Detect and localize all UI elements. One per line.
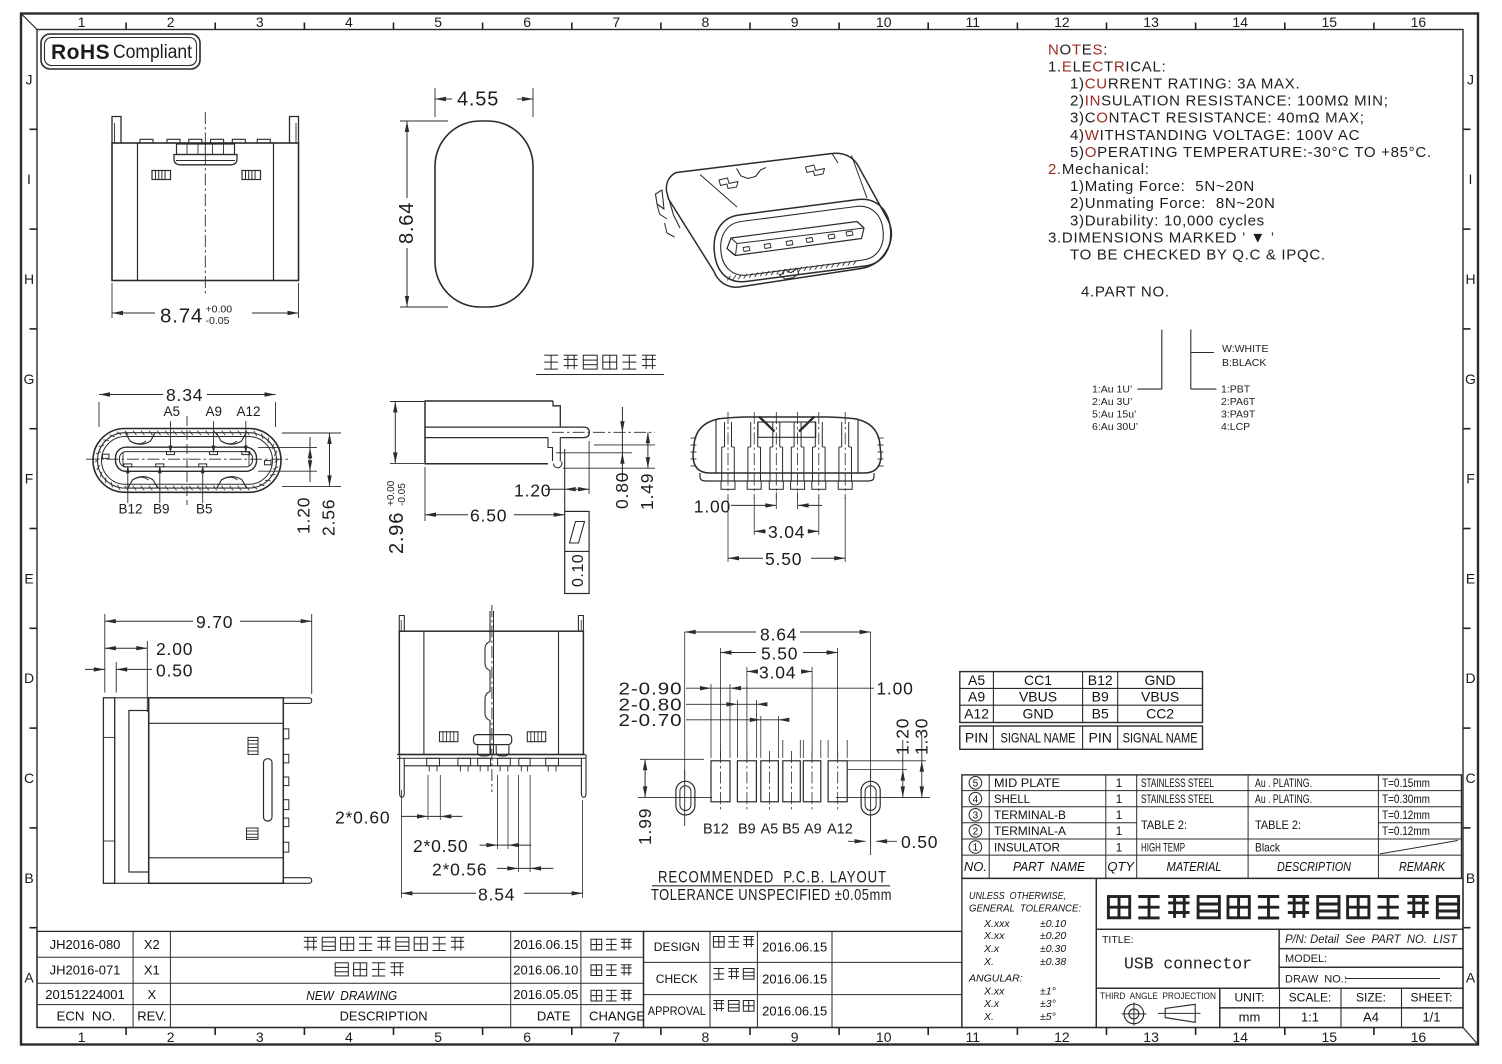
view: isometric 3D connector (656, 153, 892, 287)
left view bottom pin (283, 878, 311, 884)
dimension 0.50 (115, 662, 117, 693)
svg-text:11: 11 (966, 14, 981, 30)
svg-text:2.00: 2.00 (156, 639, 193, 659)
svg-text:A12: A12 (237, 404, 261, 419)
dimension 2-0.90 and 1.00 (686, 687, 874, 689)
top view terminals (724, 422, 726, 447)
third angle projection cell (1096, 988, 1220, 1027)
svg-text:1:PBT: 1:PBT (1221, 384, 1251, 396)
dimension 1.49 (563, 467, 655, 469)
pin leader A5 (170, 421, 172, 451)
view: oval cap profile (396, 88, 533, 307)
svg-text:-0.05: -0.05 (397, 483, 408, 506)
general tolerance box (962, 878, 1096, 1027)
svg-text:G: G (1465, 371, 1476, 387)
svg-text:5: 5 (434, 1029, 442, 1045)
front view top slots (126, 433, 156, 444)
svg-text:A12: A12 (827, 822, 853, 838)
dimension 2.00 (146, 641, 148, 712)
svg-text:X: X (147, 987, 156, 1002)
left view hatched blocks (248, 737, 258, 754)
svg-text:D: D (1465, 670, 1475, 686)
svg-text:NEW DRAWING: NEW DRAWING (306, 988, 397, 1003)
frame corner diagonal bottom-right (1463, 1028, 1478, 1045)
svg-text:±0.20: ±0.20 (1040, 930, 1066, 942)
svg-text:2.56: 2.56 (319, 499, 339, 536)
svg-text:A9: A9 (804, 822, 822, 838)
svg-text:1: 1 (1116, 808, 1123, 822)
rear view top edge tabs (140, 139, 153, 143)
svg-text:MODEL:: MODEL: (1285, 953, 1327, 965)
front view tongue (116, 447, 257, 471)
dimension 2*0.50 (496, 775, 498, 849)
svg-text:B9: B9 (153, 502, 170, 517)
svg-text:C: C (1465, 770, 1475, 786)
svg-text:1: 1 (1116, 792, 1123, 806)
part number tree diagram (1092, 330, 1268, 433)
dimension 3.04 PCB (746, 667, 748, 758)
svg-text:11: 11 (966, 1029, 981, 1045)
side view tongue centerline (552, 431, 655, 433)
svg-text:J: J (1467, 71, 1474, 87)
svg-text:X.x: X.x (983, 998, 1000, 1010)
view: recommended PCB layout (619, 625, 939, 904)
svg-text:B12: B12 (119, 502, 143, 517)
svg-text:GENERAL TOLERANCE:: GENERAL TOLERANCE: (969, 902, 1081, 914)
svg-text:3: 3 (256, 14, 264, 30)
weld view solder feet (427, 758, 440, 766)
svg-text:mm: mm (1239, 1010, 1261, 1025)
dimension 2.96 +0.00/-0.05 (390, 401, 424, 403)
svg-text:2016.06.10: 2016.06.10 (513, 963, 578, 978)
svg-text:SHEET:: SHEET: (1410, 991, 1452, 1005)
RoHS Compliant badge (41, 34, 200, 69)
rear view right contact pad (242, 171, 261, 180)
front view side keys (103, 454, 110, 458)
PCB mounting ovals (676, 781, 695, 815)
svg-text:Black: Black (1255, 840, 1281, 854)
front view horizontal centerline (86, 458, 288, 460)
svg-text:3.04: 3.04 (759, 663, 796, 683)
svg-text:TERMINAL-B: TERMINAL-B (994, 808, 1066, 822)
PCB pads (711, 761, 730, 802)
svg-text:TITLE:: TITLE: (1102, 934, 1134, 946)
svg-text:2)INSULATION RESISTANCE: 100MΩ: 2)INSULATION RESISTANCE: 100MΩ MIN; (1070, 93, 1389, 110)
svg-text:4: 4 (973, 794, 979, 805)
svg-text:0.50: 0.50 (901, 832, 938, 852)
parts list table (962, 775, 1462, 879)
svg-text:X.xx: X.xx (983, 985, 1005, 997)
svg-text:INSULATOR: INSULATOR (994, 840, 1060, 854)
svg-text:GND: GND (1145, 672, 1176, 688)
view: rear elevation of shell (112, 112, 299, 328)
svg-text:SHELL: SHELL (994, 792, 1030, 806)
svg-text:5)OPERATING TEMPERATURE:-30°C: 5)OPERATING TEMPERATURE:-30°C TO +85°C. (1070, 144, 1432, 161)
svg-text:2: 2 (167, 1029, 175, 1045)
P/N MODEL DRAW NO rows (1279, 929, 1463, 988)
svg-text:VBUS: VBUS (1141, 689, 1179, 705)
svg-text:0.10: 0.10 (570, 554, 587, 587)
svg-text:8.54: 8.54 (478, 885, 515, 905)
svg-text:2*0.50: 2*0.50 (413, 836, 468, 856)
isometric tongue contact holes (743, 247, 750, 252)
svg-text:2*0.56: 2*0.56 (432, 860, 487, 880)
isometric clip marks (719, 178, 738, 189)
weld view corner legs (400, 755, 405, 798)
svg-text:GND: GND (1022, 705, 1053, 721)
svg-text:2.Mechanical:: 2.Mechanical: (1048, 161, 1150, 178)
parts table texts (994, 776, 1430, 855)
svg-text:A9: A9 (206, 404, 223, 419)
svg-text:B12: B12 (703, 822, 729, 838)
svg-text:NOTES:: NOTES: (1048, 41, 1108, 58)
isometric tongue slab (727, 222, 864, 256)
parts table circled item numbers (969, 777, 982, 790)
svg-text:B:BLACK: B:BLACK (1222, 357, 1266, 369)
svg-text:3)CONTACT RESISTANCE: 40mΩ MAX: 3)CONTACT RESISTANCE: 40mΩ MAX; (1070, 110, 1365, 127)
svg-text:3.DIMENSIONS MARKED ’ ▼ ’: 3.DIMENSIONS MARKED ’ ▼ ’ (1048, 229, 1275, 246)
svg-text:12: 12 (1054, 14, 1070, 30)
left view right edge tabs (283, 729, 289, 739)
svg-text:±1°: ±1° (1040, 985, 1056, 997)
svg-text:VBUS: VBUS (1019, 689, 1057, 705)
svg-text:10: 10 (876, 14, 892, 30)
PCB oval centerlines (638, 796, 712, 798)
view: left side elevation (85, 612, 312, 883)
svg-text:1.20: 1.20 (893, 718, 913, 755)
svg-text:2)Unmating Force: 8N~20N: 2)Unmating Force: 8N~20N (1070, 195, 1276, 212)
rear view vertical centerline (204, 112, 206, 296)
svg-text:16: 16 (1411, 1029, 1427, 1045)
unit scale size sheet cells (1220, 988, 1463, 1027)
svg-text:1.00: 1.00 (876, 679, 913, 699)
svg-text:1)CURRENT RATING: 3A MAX.: 1)CURRENT RATING: 3A MAX. (1070, 76, 1300, 93)
svg-text:TABLE 2:: TABLE 2: (1255, 818, 1301, 832)
svg-text:CHECK: CHECK (656, 972, 698, 986)
approval signatures Chinese names (713, 937, 724, 948)
svg-text:1.ELECTRICAL:: 1.ELECTRICAL: (1048, 58, 1166, 75)
svg-text:15: 15 (1322, 14, 1338, 30)
svg-text:1.49: 1.49 (637, 473, 657, 510)
isometric left end cap (667, 191, 681, 228)
dimension 0.50 PCB (870, 815, 872, 845)
svg-text:D: D (24, 670, 34, 686)
svg-text:1.20: 1.20 (514, 481, 551, 501)
caption: Chinese caption with underline (536, 355, 664, 374)
dimension 1.20 right (282, 432, 341, 434)
svg-text:6:Au 30U’: 6:Au 30U’ (1092, 421, 1138, 433)
svg-text:PIN: PIN (1089, 730, 1112, 746)
svg-text:±0.10: ±0.10 (1040, 918, 1066, 930)
dimension 8.74 +0.00/-0.05 (111, 283, 113, 318)
svg-text:1.99: 1.99 (635, 808, 655, 845)
dimension 2*0.56 (517, 775, 519, 872)
view: front mating face (86, 385, 341, 536)
svg-text:4)WITHSTANDING VOLTAGE: 100V A: 4)WITHSTANDING VOLTAGE: 100V AC (1070, 127, 1360, 144)
svg-text:14: 14 (1232, 1029, 1248, 1045)
dimension 8.34 (98, 402, 100, 427)
svg-text:MID PLATE: MID PLATE (994, 776, 1060, 790)
svg-text:5.50: 5.50 (761, 644, 798, 664)
svg-text:9: 9 (791, 14, 799, 30)
svg-text:2-0.70: 2-0.70 (619, 710, 683, 730)
svg-text:DRAW NO.:: DRAW NO.: (1285, 973, 1347, 985)
dimension 1.20 (588, 441, 590, 494)
svg-text:SIGNAL NAME: SIGNAL NAME (1001, 730, 1076, 746)
view: front weld seam view (335, 605, 586, 905)
svg-text:4:LCP: 4:LCP (1221, 421, 1250, 433)
svg-text:13: 13 (1143, 1029, 1159, 1045)
svg-text:X1: X1 (144, 963, 160, 978)
svg-text:1: 1 (1116, 776, 1123, 790)
svg-text:7: 7 (612, 14, 620, 30)
svg-text:1.20: 1.20 (294, 497, 314, 534)
svg-text:2.96: 2.96 (386, 512, 408, 554)
svg-text:1)Mating Force: 5N~20N: 1)Mating Force: 5N~20N (1070, 178, 1255, 195)
svg-text:T=0.30mm: T=0.30mm (1382, 792, 1430, 806)
isometric mating face outer ring (714, 199, 891, 281)
svg-text:F: F (25, 471, 34, 487)
svg-text:Compliant: Compliant (113, 42, 193, 63)
svg-text:3.04: 3.04 (768, 522, 805, 542)
svg-text:12: 12 (1054, 1029, 1070, 1045)
svg-text:DATE: DATE (537, 1009, 571, 1024)
isometric ring hatch (727, 260, 856, 280)
svg-text:X.: X. (983, 956, 994, 968)
view: side section (386, 401, 657, 594)
weld view center cap (474, 735, 512, 745)
svg-text:APPROVAL: APPROVAL (648, 1004, 706, 1018)
svg-text:A12: A12 (964, 705, 989, 721)
svg-text:5: 5 (434, 14, 442, 30)
svg-text:0.80: 0.80 (612, 472, 632, 509)
svg-text:B9: B9 (1092, 689, 1109, 705)
svg-text:E: E (24, 570, 33, 586)
svg-text:2016.06.15: 2016.06.15 (513, 937, 578, 952)
top view bottom lip (700, 473, 874, 481)
svg-text:E: E (1466, 570, 1475, 586)
svg-text:8: 8 (702, 1029, 710, 1045)
svg-text:5: 5 (973, 778, 979, 789)
svg-text:X2: X2 (144, 937, 160, 952)
top view center cutout with latch springs (758, 422, 816, 437)
pin leader A9 (213, 421, 215, 451)
svg-text:DESCRIPTION: DESCRIPTION (1277, 859, 1352, 874)
svg-text:Au . PLATING.: Au . PLATING. (1255, 792, 1312, 806)
svg-text:7: 7 (612, 1029, 620, 1045)
svg-text:A5: A5 (761, 822, 779, 838)
dimension 8.64 PCB (684, 632, 686, 779)
svg-text:I: I (1469, 171, 1473, 187)
svg-text:A5: A5 (968, 672, 985, 688)
svg-text:REV.: REV. (137, 1009, 166, 1024)
svg-text:SCALE:: SCALE: (1289, 991, 1332, 1005)
svg-text:T=0.12mm: T=0.12mm (1382, 808, 1430, 822)
svg-text:CC1: CC1 (1024, 672, 1052, 688)
svg-text:1.00: 1.00 (694, 497, 731, 517)
pin leader B12 (127, 470, 129, 503)
rear view corner posts (112, 117, 121, 144)
svg-text:UNIT:: UNIT: (1235, 991, 1265, 1005)
svg-text:B12: B12 (1088, 672, 1113, 688)
left view center latch bar (264, 759, 273, 821)
svg-text:NO.: NO. (964, 859, 987, 874)
svg-text:3:PA9T: 3:PA9T (1221, 409, 1256, 421)
svg-text:B5: B5 (196, 502, 213, 517)
svg-text:1: 1 (78, 14, 86, 30)
svg-text:16: 16 (1411, 14, 1427, 30)
svg-text:JH2016-071: JH2016-071 (50, 963, 121, 978)
dimension 4.55 (434, 88, 436, 117)
svg-text:13: 13 (1143, 14, 1159, 30)
dimension 1.20 1.30 PCB (847, 769, 907, 771)
weld view base plate (397, 754, 585, 756)
view: top view with terminals (691, 412, 884, 569)
svg-text:8: 8 (702, 14, 710, 30)
svg-text:TOLERANCE UNSPECIFIED ±0.05mm: TOLERANCE UNSPECIFIED ±0.05mm (651, 887, 892, 904)
svg-text:2:Au 3U’: 2:Au 3U’ (1092, 396, 1132, 408)
svg-text:CHANGE: CHANGE (589, 1009, 645, 1024)
svg-text:1: 1 (78, 1029, 86, 1045)
company name box (1096, 878, 1463, 929)
svg-text:4: 4 (345, 14, 353, 30)
svg-text:1: 1 (1116, 840, 1123, 854)
svg-text:W:WHITE: W:WHITE (1222, 343, 1268, 355)
left view top pin (283, 698, 311, 704)
rear view left contact pad (152, 171, 171, 180)
svg-text:A5: A5 (164, 404, 181, 419)
svg-text:1/1: 1/1 (1422, 1010, 1440, 1025)
dimension 2-0.80 (686, 703, 763, 705)
svg-text:+0.00: +0.00 (206, 304, 233, 316)
svg-text:B9: B9 (738, 822, 756, 838)
svg-text:A: A (1466, 970, 1476, 986)
weld seam line (493, 611, 495, 755)
top view end ribs (691, 437, 697, 439)
side view pin line and flatness frame (564, 449, 566, 511)
dimension 8.64 vertical (400, 120, 448, 122)
svg-text:±0.30: ±0.30 (1040, 943, 1066, 955)
svg-text:2:PA6T: 2:PA6T (1221, 396, 1256, 408)
svg-text:2016.06.15: 2016.06.15 (762, 972, 827, 987)
svg-text:1:1: 1:1 (1301, 1010, 1319, 1025)
svg-text:A: A (24, 970, 34, 986)
side view under-step and hook (548, 438, 553, 461)
svg-text:Au . PLATING.: Au . PLATING. (1255, 776, 1312, 790)
svg-text:A9: A9 (968, 689, 985, 705)
svg-text:DESCRIPTION: DESCRIPTION (340, 1009, 428, 1024)
svg-text:+0.00: +0.00 (386, 480, 397, 506)
front view vertical centerline (186, 416, 188, 505)
svg-text:1.30: 1.30 (912, 718, 932, 755)
approval signatures table (644, 931, 962, 1027)
svg-text:14: 14 (1232, 14, 1248, 30)
svg-text:ECN NO.: ECN NO. (57, 1009, 116, 1024)
svg-text:H: H (24, 271, 34, 287)
svg-text:T=0.15mm: T=0.15mm (1382, 776, 1430, 790)
svg-text:T=0.12mm: T=0.12mm (1382, 824, 1430, 838)
svg-text:C: C (24, 770, 34, 786)
svg-text:TO BE CHECKED BY Q.C & IPQC.: TO BE CHECKED BY Q.C & IPQC. (1070, 247, 1326, 264)
svg-text:8.74: 8.74 (160, 305, 203, 328)
svg-text:B5: B5 (1092, 705, 1109, 721)
front view shell hatch (95, 431, 279, 491)
dimension 8.54 (582, 800, 584, 898)
svg-text:TERMINAL-A: TERMINAL-A (994, 824, 1066, 838)
frame corner diagonal top-left (21, 14, 37, 30)
svg-text:STAINLESS STEEL: STAINLESS STEEL (1141, 776, 1214, 790)
svg-text:9.70: 9.70 (196, 612, 233, 632)
isometric mating face inner ring (721, 206, 884, 275)
dimension 2*0.60 (427, 775, 429, 820)
svg-text:5.50: 5.50 (765, 549, 802, 569)
dimension 0.80 (556, 452, 632, 454)
svg-text:ANGULAR:: ANGULAR: (968, 973, 1023, 985)
svg-text:RECOMMENDED P.C.B. LAYOUT: RECOMMENDED P.C.B. LAYOUT (658, 868, 887, 887)
svg-text:REMARK: REMARK (1399, 859, 1446, 874)
isometric front notch (779, 268, 799, 279)
svg-text:2: 2 (973, 827, 979, 838)
dimension 5.50 PCB (720, 648, 722, 758)
svg-text:TABLE 2:: TABLE 2: (1141, 818, 1187, 832)
svg-text:3: 3 (973, 810, 979, 821)
parts table remark diagonal (1380, 841, 1458, 854)
svg-text:MATERIAL: MATERIAL (1167, 859, 1222, 874)
dimension 5.50 top view (727, 497, 729, 562)
svg-text:B: B (1466, 870, 1475, 886)
svg-text:2016.06.15: 2016.06.15 (762, 940, 827, 955)
svg-text:X.xxx: X.xxx (983, 918, 1010, 930)
svg-text:8.64: 8.64 (760, 625, 797, 645)
svg-text:20151224001: 20151224001 (45, 987, 125, 1002)
svg-text:X.xx: X.xx (983, 930, 1005, 942)
svg-text:SIZE:: SIZE: (1356, 991, 1386, 1005)
pin leader B5 (202, 470, 204, 503)
svg-text:4: 4 (345, 1029, 353, 1045)
svg-text:DESIGN: DESIGN (654, 940, 700, 954)
parts table header (964, 859, 1446, 874)
svg-text:2*0.60: 2*0.60 (335, 808, 390, 828)
svg-text:2016.06.15: 2016.06.15 (762, 1004, 827, 1019)
svg-text:1:Au 1U’: 1:Au 1U’ (1092, 384, 1132, 396)
svg-text:STAINLESS STEEL: STAINLESS STEEL (1141, 792, 1214, 806)
dimension 3.04 top view (753, 497, 755, 535)
svg-text:6.50: 6.50 (470, 506, 507, 526)
svg-text:B5: B5 (782, 822, 800, 838)
svg-text:4.PART NO.: 4.PART NO. (1081, 284, 1170, 301)
svg-text:3: 3 (256, 1029, 264, 1045)
front view bottom slots (128, 477, 158, 488)
svg-text:6: 6 (523, 1029, 531, 1045)
svg-text:B: B (24, 870, 33, 886)
svg-text:1: 1 (973, 843, 979, 854)
PCB pad labels (703, 822, 853, 838)
pin leader B9 (159, 470, 161, 503)
svg-text:±3°: ±3° (1040, 998, 1056, 1010)
svg-text:X.x: X.x (983, 943, 1000, 955)
svg-text:RoHS: RoHS (51, 41, 110, 64)
svg-text:QTY: QTY (1107, 859, 1135, 874)
svg-text:P/N: Detail See PART NO. L: P/N: Detail See PART NO. LIST (1285, 934, 1458, 946)
dimension 9.70 (104, 614, 106, 693)
svg-text:JH2016-080: JH2016-080 (50, 937, 121, 952)
svg-text:2: 2 (167, 14, 175, 30)
svg-text:6: 6 (523, 14, 531, 30)
notes text block (1048, 41, 1432, 300)
isometric top clip cutout (737, 168, 767, 179)
svg-text:I: I (27, 171, 31, 187)
svg-text:8.34: 8.34 (166, 385, 203, 405)
